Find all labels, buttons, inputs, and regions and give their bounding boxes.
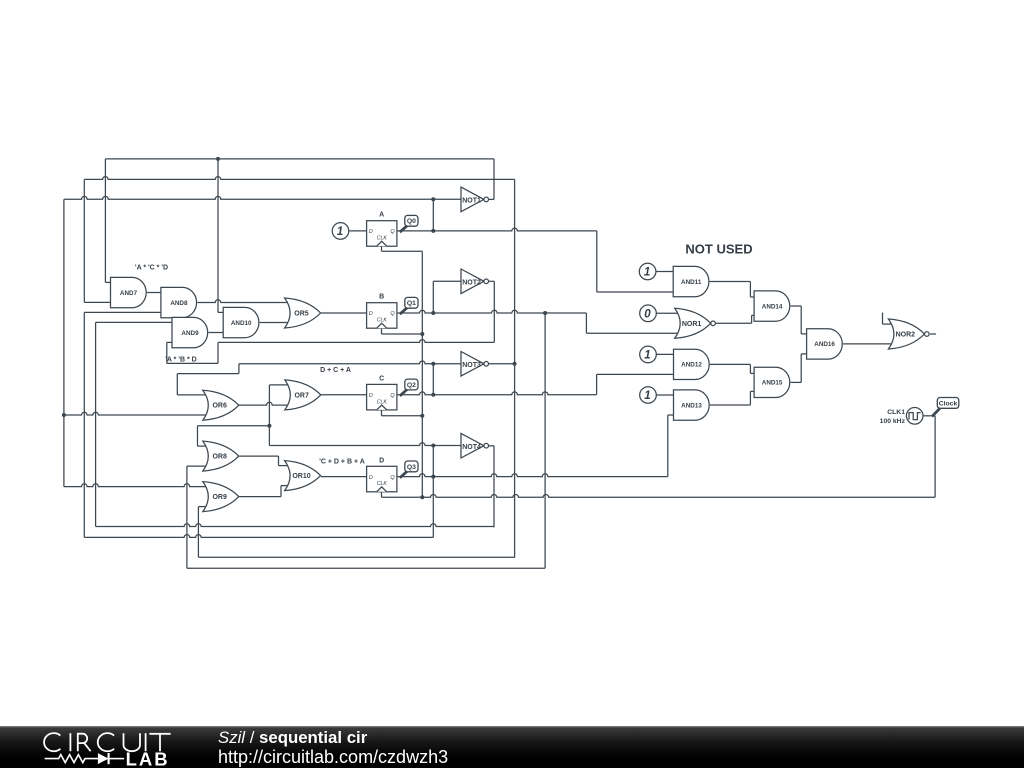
NOT gate NOT1	[461, 187, 489, 212]
svg-text:AND9: AND9	[181, 330, 199, 337]
flag Q0	[400, 215, 418, 232]
wire AND7 lower input	[84, 301, 110, 303]
wire Q0 to AND11 lower input	[597, 291, 673, 293]
wire const 0 to NOR1	[656, 312, 679, 314]
OR gate OR10	[285, 461, 321, 491]
wire OR10 to DFF D	[321, 476, 367, 478]
wire DFF A clock jog	[381, 246, 383, 251]
wire OR8 output to OR10	[239, 455, 278, 457]
wire NOT3 input to Q2	[432, 364, 434, 395]
junction NOT4 input	[431, 444, 435, 448]
wire const 1 to AND13	[656, 394, 673, 396]
svg-text:CLK1: CLK1	[887, 409, 905, 416]
wire OR7 to DFF C	[321, 394, 367, 396]
svg-text:OR5: OR5	[294, 311, 309, 318]
constant 0 input to NOR1	[640, 305, 657, 322]
wire Q2 jog up to AND12	[596, 374, 598, 394]
AND gate AND12	[674, 349, 710, 379]
svg-text:Q: Q	[390, 475, 395, 481]
wire NOR2 upper input stub	[882, 313, 884, 325]
wire AND10 output to OR5	[260, 322, 290, 324]
svg-text:100 kHz: 100 kHz	[880, 418, 906, 425]
wire CLK vertical bus	[421, 251, 423, 497]
wire AND9 output to AND10	[209, 332, 224, 334]
NOT gate NOT2	[461, 269, 489, 294]
svg-text:AND11: AND11	[681, 279, 702, 286]
wire NOT2 output net 'B	[493, 281, 495, 342]
svg-text:CLK: CLK	[377, 236, 388, 242]
junction net D OR7/OR8	[267, 424, 271, 428]
wire NOT2 input to Q1	[432, 281, 434, 313]
wire net C jog to OR6	[238, 364, 240, 374]
AND gate AND14	[754, 291, 790, 321]
svg-text:NOT3: NOT3	[462, 362, 481, 369]
svg-text:D + C + A: D + C + A	[320, 367, 351, 374]
junction NOT3 output 'C bus	[513, 362, 517, 366]
svg-text:OR7: OR7	[294, 392, 309, 399]
wire OR6 output to OR7	[239, 402, 290, 405]
NOR gate NOR2	[888, 319, 929, 349]
svg-text:Q: Q	[390, 311, 395, 317]
junction Q2 NOT3	[431, 393, 435, 397]
wire NOT1 input to Q0	[432, 199, 434, 231]
wire Q0 down to AND11	[596, 231, 598, 292]
wire net 'A to AND7 vertical	[104, 159, 106, 283]
svg-text:NOT1: NOT1	[462, 198, 481, 205]
OR gate OR6	[203, 390, 239, 420]
AND gate AND13	[674, 390, 710, 420]
wire DFF B clock jog	[381, 328, 383, 334]
svg-text:Q1: Q1	[407, 300, 416, 307]
wire net C / NOT3 input	[239, 361, 461, 364]
wire OR7 upper input	[269, 384, 289, 386]
svg-text:CLK: CLK	[377, 399, 388, 405]
AND gate AND10	[223, 307, 259, 337]
CircuitLab logo	[0, 726, 200, 768]
wire Q3 up to AND13	[667, 415, 669, 477]
svg-text:AND15: AND15	[762, 380, 783, 387]
svg-text:D: D	[369, 475, 373, 481]
svg-text:CLK: CLK	[377, 318, 388, 324]
wire AND8 output to OR5	[197, 300, 289, 303]
svg-text:A: A	[379, 212, 384, 219]
svg-text:NOT2: NOT2	[462, 279, 481, 286]
wire net D vertical to OR7/OR8	[268, 385, 270, 446]
svg-text:AND12: AND12	[681, 362, 702, 369]
junction Q1 branch B	[543, 311, 547, 315]
junction CLK B	[420, 332, 424, 336]
wire net 'B feedback	[218, 340, 494, 343]
wire net 'A branch vertical	[217, 159, 219, 313]
svg-text:AND13: AND13	[681, 402, 702, 409]
svg-text:'A * 'C * 'D: 'A * 'C * 'D	[135, 265, 168, 272]
svg-text:D: D	[369, 393, 373, 399]
wire AND7 output to AND8	[147, 292, 161, 294]
OR gate OR9	[203, 482, 239, 512]
wire input 1 to DFF A	[350, 230, 367, 232]
AND gate AND8	[161, 287, 197, 317]
AND gate AND7	[111, 277, 147, 307]
constant 1 input to AND12	[640, 346, 657, 363]
wire AND9 upper input	[96, 321, 172, 323]
constant 1 input to AND11	[639, 263, 656, 280]
wire NOT4 output net 'D	[493, 446, 495, 528]
wire const 1 to AND11	[656, 271, 673, 273]
junction 'A branch	[216, 157, 220, 161]
svg-text:Clock: Clock	[939, 400, 958, 407]
svg-text:Q: Q	[390, 393, 395, 399]
wire net 'C vertical bus	[514, 179, 516, 557]
svg-text:CLK: CLK	[377, 481, 388, 487]
wire OR9 lower input	[198, 506, 207, 508]
svg-text:AND7: AND7	[120, 290, 138, 297]
wire Q1 to NOR1 lower input	[586, 332, 679, 334]
wire NOT3 output net 'C	[486, 363, 514, 365]
svg-text:OR10: OR10	[292, 473, 310, 480]
svg-text:AND14: AND14	[762, 303, 783, 310]
junction A / OR6 input	[62, 413, 66, 417]
wire net 'D to AND9 vertical	[95, 322, 97, 526]
wire DFF D clock stub	[381, 492, 383, 498]
wire Q2 to AND12 lower input	[597, 373, 674, 375]
wire AND12 output to AND15	[710, 363, 750, 365]
svg-text:NOR1: NOR1	[682, 321, 702, 328]
svg-text:OR8: OR8	[212, 454, 227, 461]
AND gate AND9	[172, 317, 208, 347]
wire Q1 jog down to NOR1	[585, 313, 587, 333]
junction Q3 net D	[431, 475, 435, 479]
flag Q3	[400, 461, 418, 478]
svg-text:'C + D + B + A: 'C + D + B + A	[319, 458, 365, 465]
wire net D feedback bus	[84, 535, 433, 538]
clock source CLK1 100 kHz	[880, 408, 923, 426]
svg-text:OR6: OR6	[212, 403, 227, 410]
wire AND16 output to NOR2	[843, 343, 894, 345]
wire OR9 output to OR10	[239, 496, 281, 498]
svg-text:AND10: AND10	[231, 320, 252, 327]
wire net B vertical to OR8	[186, 466, 188, 568]
wire OR8 upper input	[198, 445, 208, 447]
svg-text:NOR2: NOR2	[896, 332, 916, 339]
wire AND8 lower input	[84, 311, 161, 313]
wire AND7 upper input	[105, 281, 110, 283]
wire OR8 upper jog	[197, 426, 199, 446]
D flip-flop A	[367, 212, 397, 247]
constant 1 input to AND13	[640, 387, 657, 404]
svg-text:1: 1	[644, 390, 650, 402]
flag Q1	[400, 297, 418, 314]
wire CLK1 vertical	[934, 416, 936, 498]
wire net 'D feedback bus	[96, 524, 494, 527]
junction Q1 NOT2	[431, 311, 435, 315]
wire net D vertical	[432, 446, 434, 538]
junction Q0	[431, 229, 435, 233]
wire OR8 lower input	[187, 465, 208, 467]
wire net A left bus vertical	[63, 199, 65, 486]
wire net B vertical bus	[544, 313, 546, 568]
svg-text:Q: Q	[390, 229, 395, 235]
wire net 'C top bus	[84, 177, 514, 180]
wire AND13 lower input	[668, 414, 674, 416]
svg-text:Q0: Q0	[407, 218, 416, 225]
svg-text:D: D	[379, 457, 384, 464]
wire Q3 output	[397, 474, 668, 477]
svg-text:NOT USED: NOT USED	[685, 242, 752, 257]
wire DFF C clock jog	[381, 410, 383, 416]
OR gate OR7	[285, 380, 321, 410]
wire const 1 to AND12	[656, 353, 673, 355]
wire OR5 to DFF B	[321, 312, 367, 314]
wire net 'C bottom bus	[198, 556, 515, 558]
wire AND10 upper input	[218, 311, 223, 313]
D flip-flop C	[367, 375, 397, 410]
wire net D to AND8 vertical	[83, 312, 85, 537]
junction NOT3 input	[431, 362, 435, 366]
wire AND11 output to AND14	[710, 281, 751, 283]
OR gate OR8	[203, 441, 239, 471]
wire NOR2 output stub	[930, 333, 936, 335]
wire net A / NOT1 input	[64, 196, 461, 199]
NOR gate NOR1	[675, 308, 716, 338]
svg-text:D: D	[369, 229, 373, 235]
D flip-flop D	[367, 457, 397, 492]
wire AND13 output to AND15	[710, 404, 750, 406]
svg-text:D: D	[369, 311, 373, 317]
AND gate AND16	[807, 329, 843, 359]
wire net D to OR8	[198, 425, 270, 427]
svg-text:B: B	[379, 294, 384, 301]
junction CLK D	[420, 495, 424, 499]
svg-text:0: 0	[644, 308, 651, 320]
svg-text:'A * 'B * D: 'A * 'B * D	[165, 357, 196, 364]
svg-text:Q2: Q2	[407, 382, 416, 389]
svg-text:C: C	[379, 375, 384, 382]
OR gate OR5	[285, 298, 321, 328]
wire net 'C vertical to OR9	[197, 507, 199, 558]
svg-text:AND16: AND16	[814, 341, 835, 348]
flag Clock	[932, 398, 959, 417]
svg-text:1: 1	[337, 226, 343, 238]
wire AND15 output to AND16	[791, 381, 802, 383]
wire net D / NOT4 input	[269, 443, 461, 446]
wire net B bottom bus	[187, 567, 545, 569]
wire Q1 output	[397, 310, 587, 313]
wire net 'C to AND7 vertical	[83, 179, 85, 302]
junction CLK C	[420, 414, 424, 418]
wire AND14 output to AND16	[791, 305, 802, 307]
AND gate AND15	[754, 367, 790, 397]
wire NOT1 output to 'A bus	[493, 159, 495, 200]
wire Q2 output	[397, 392, 597, 395]
flag Q2	[400, 379, 418, 396]
wire net 'B jog around AND9	[217, 342, 219, 363]
NOT gate NOT3	[461, 352, 489, 377]
svg-text:LAB: LAB	[126, 749, 170, 768]
wire NOT2 input	[433, 280, 461, 282]
constant 1 input to DFF A	[332, 223, 349, 240]
svg-text:1: 1	[644, 349, 650, 361]
wire CLK bottom bus	[382, 494, 936, 497]
svg-text:1: 1	[644, 267, 650, 279]
svg-text:AND8: AND8	[170, 300, 188, 307]
wire NOR1 output to AND14	[716, 322, 752, 324]
AND gate AND11	[673, 266, 709, 296]
wire Q0 output	[397, 228, 597, 231]
wire CLK1 output	[923, 415, 935, 417]
NOT gate NOT4	[461, 433, 489, 458]
wire net A to OR9 upper input	[64, 484, 208, 487]
D flip-flop B	[367, 294, 397, 329]
svg-text:OR9: OR9	[212, 494, 227, 501]
wire net 'A top bus	[105, 158, 494, 160]
wire net A to OR6 lower input	[64, 412, 208, 415]
svg-text:NOT4: NOT4	[462, 444, 481, 451]
junction NOT1 input	[431, 197, 435, 201]
svg-text:Q3: Q3	[407, 464, 416, 471]
